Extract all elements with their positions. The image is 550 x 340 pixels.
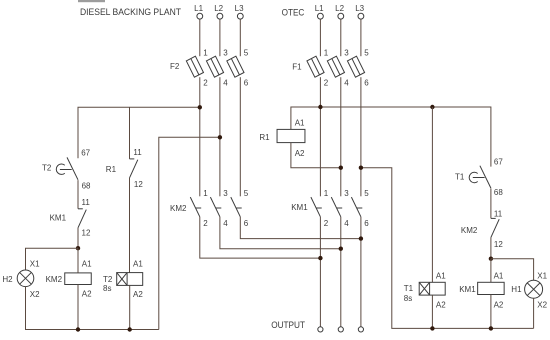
fuse F1 pole 3	[347, 56, 364, 77]
timer coil T1 pin A2	[436, 301, 446, 310]
fuse F2 pin 5	[244, 48, 249, 57]
svg-text:5: 5	[244, 189, 249, 198]
relay contact R1	[130, 159, 138, 178]
svg-text:KM1: KM1	[459, 285, 476, 294]
timer coil T2 8s	[117, 273, 143, 286]
contactor KM2 label	[170, 204, 187, 213]
wire KM2 aux to node	[490, 237, 492, 258]
wire R1 contact to T2 coil	[129, 178, 131, 273]
lamp H2	[17, 270, 34, 287]
svg-text:KM1: KM1	[291, 203, 308, 212]
coil KM1 pin A2	[494, 301, 504, 310]
coil KM1 pin A1	[494, 271, 504, 280]
timer coil T1 8s	[419, 282, 445, 295]
wire L1 diesel to fuse F2	[199, 19, 201, 56]
svg-text:KM1: KM1	[50, 213, 67, 222]
svg-text:5: 5	[364, 48, 369, 57]
wire KM2 coil to bottom rail	[77, 285, 79, 330]
coil KM2 pin A2	[82, 289, 92, 298]
contactor KM1 pole 1	[311, 197, 322, 217]
aux contact KM1 label	[50, 213, 67, 222]
svg-text:A2: A2	[133, 290, 143, 299]
svg-text:A1: A1	[494, 271, 504, 280]
svg-text:6: 6	[364, 219, 369, 228]
terminal L1 otec	[318, 13, 324, 19]
relay coil R1 pin A1	[295, 119, 305, 128]
relay contact R1 pin 11	[133, 148, 142, 157]
node junction T1 coil bottom	[430, 326, 434, 330]
terminal L3 otec	[358, 13, 364, 19]
wire left return riser and L2 tap	[159, 137, 220, 329]
timer coil T1 label	[404, 284, 414, 293]
wire lamp H2 to bottom rail	[26, 287, 159, 330]
terminal output L3	[358, 327, 363, 332]
svg-text:4: 4	[344, 219, 349, 228]
wire F2 pole 3 down to KM2 contact	[239, 77, 241, 196]
wire R1 coil to L2 otec	[291, 143, 341, 168]
lamp H1 pin X1	[537, 271, 547, 280]
relay coil R1 pin A2	[295, 149, 305, 158]
coil KM1 label	[459, 285, 476, 294]
timer coil T2 pin A2	[133, 290, 143, 299]
svg-text:2: 2	[324, 219, 329, 228]
wire node to KM1 coil	[490, 259, 492, 283]
timer contact T1 pin 68	[494, 188, 503, 197]
relay coil R1	[277, 129, 305, 142]
svg-text:A1: A1	[133, 260, 143, 269]
timer contact T1 pin 67	[494, 158, 503, 167]
contactor KM1 pole pin 5	[364, 189, 369, 198]
svg-text:L1: L1	[315, 4, 324, 13]
terminal L3 diesel label	[235, 4, 244, 13]
contactor KM1 pole pin 1	[324, 189, 329, 198]
svg-text:R1: R1	[259, 133, 270, 142]
svg-text:11: 11	[82, 198, 91, 207]
wire L1 otec to fuse F1	[319, 19, 321, 56]
terminal L2 diesel label	[214, 4, 223, 13]
svg-text:OTEC: OTEC	[282, 8, 305, 18]
svg-text:68: 68	[494, 188, 503, 197]
svg-text:1: 1	[203, 48, 208, 57]
node junction KM1 coil branch	[489, 257, 493, 261]
fuse F1 pole 1	[307, 56, 324, 77]
contactor KM2 pole 3	[231, 197, 242, 217]
svg-text:A1: A1	[436, 271, 446, 280]
contactor KM2 pole pin 5	[244, 189, 249, 198]
relay coil R1 label	[259, 133, 270, 142]
contactor KM2 pole pin 1	[203, 189, 208, 198]
svg-text:67: 67	[494, 158, 503, 167]
timer coil T2 pin A1	[133, 260, 143, 269]
wire L3 otec to right return rail	[361, 168, 534, 329]
coil KM2 pin A1	[82, 259, 92, 268]
wire L2 diesel to fuse F2	[219, 19, 221, 56]
svg-text:5: 5	[364, 189, 369, 198]
contactor KM2 pole pin 4	[223, 219, 228, 228]
timer contact T2 pin 67	[81, 149, 90, 158]
contactor KM2 pole pin 6	[244, 219, 249, 228]
wire otec control line	[291, 107, 491, 167]
svg-text:6: 6	[364, 79, 369, 88]
svg-text:KM2: KM2	[461, 226, 478, 235]
svg-text:A2: A2	[494, 301, 504, 310]
fuse F1 pin 4	[344, 79, 349, 88]
terminal L2 otec label	[335, 4, 344, 13]
svg-text:5: 5	[244, 48, 249, 57]
svg-text:68: 68	[82, 182, 91, 191]
svg-text:1: 1	[324, 48, 329, 57]
wire T1 coil to bottom rail	[431, 295, 433, 328]
svg-text:T2: T2	[103, 275, 113, 284]
wire node to lamp H1	[491, 259, 534, 281]
wire T2 coil to bottom rail	[129, 285, 131, 329]
wire F1 pole 1 down to KM1 contact	[319, 77, 321, 196]
contactor KM1 pole pin 6	[364, 219, 369, 228]
terminal L3 diesel	[237, 13, 243, 19]
node junction L2 otec	[339, 166, 343, 170]
wire F2 pole 2 down to KM2 contact	[219, 77, 221, 196]
wire F1 pole 3 down to KM1 contact	[360, 77, 362, 196]
node junction T1 coil branch	[430, 105, 434, 109]
fuse F2 pole 1	[186, 56, 203, 77]
wire control tap from L1 diesel	[78, 107, 200, 158]
svg-text:OUTPUT: OUTPUT	[271, 320, 305, 330]
timer contact T2 pin 68	[82, 182, 91, 191]
svg-text:H1: H1	[511, 285, 522, 294]
wire KM1 pole3 to output L3	[360, 217, 362, 327]
svg-text:1: 1	[203, 189, 208, 198]
terminal L1 diesel label	[194, 4, 203, 13]
relay contact R1 label	[106, 165, 117, 174]
title OUTPUT	[271, 320, 305, 330]
terminal L1 diesel	[197, 13, 203, 19]
svg-text:L2: L2	[335, 4, 344, 13]
coil KM2	[65, 273, 92, 285]
svg-text:L2: L2	[214, 4, 223, 13]
wire KM2 pole3 to output bus	[240, 217, 361, 239]
contactor KM1 pole pin 4	[344, 219, 349, 228]
fuse F1 pin 5	[364, 48, 369, 57]
contactor KM1 pole 3	[351, 197, 362, 217]
wire F1 pole 2 down to KM1 contact	[340, 77, 342, 196]
fuse F1 pin 1	[324, 48, 329, 57]
svg-text:A1: A1	[82, 259, 92, 268]
svg-text:DIESEL BACKING PLANT: DIESEL BACKING PLANT	[80, 7, 181, 17]
lamp H2 label	[2, 275, 13, 284]
terminal output L2	[338, 327, 343, 332]
svg-text:3: 3	[344, 189, 349, 198]
svg-text:4: 4	[223, 219, 228, 228]
contactor KM1 pole pin 2	[324, 219, 329, 228]
lamp H1 label	[511, 285, 522, 294]
fuse F1 pin 6	[364, 79, 369, 88]
node junction KM2 coil branch	[76, 246, 80, 250]
coil KM1	[478, 282, 505, 294]
fuse F2 pin 1	[203, 48, 208, 57]
svg-text:A2: A2	[82, 289, 92, 298]
title DIESEL BACKING PLANT	[80, 7, 181, 17]
wire T1 to KM2 aux contact	[490, 188, 492, 218]
node junction output L1	[318, 256, 322, 260]
wire KM2 pole2 to output bus	[220, 217, 341, 249]
svg-text:12: 12	[494, 240, 503, 249]
svg-text:8s: 8s	[404, 294, 412, 303]
svg-text:6: 6	[244, 219, 249, 228]
fuse F2 pole 2	[206, 56, 223, 77]
node junction L3 otec	[359, 166, 363, 170]
svg-text:T1: T1	[404, 284, 414, 293]
wire KM1 aux to node	[77, 228, 79, 248]
svg-text:A1: A1	[295, 119, 305, 128]
aux contact KM2	[491, 218, 499, 237]
fuse F2 pin 6	[244, 79, 249, 88]
fuse F2 pin 4	[223, 79, 228, 88]
fuse F2 pin 2	[203, 79, 208, 88]
title OTEC	[282, 8, 305, 18]
svg-text:2: 2	[324, 79, 329, 88]
wire lamp H1 to bottom rail	[533, 298, 535, 328]
wire node to KM2 coil	[77, 248, 79, 273]
wire KM2 pole1 to output bus	[200, 217, 321, 258]
svg-text:F1: F1	[292, 63, 302, 72]
timer coil T2 label	[103, 275, 113, 284]
fuse F2 pole 3	[227, 56, 244, 77]
lamp H2 pin X1	[30, 259, 40, 268]
timer contact T2	[56, 157, 78, 179]
svg-text:X1: X1	[537, 271, 547, 280]
svg-text:1: 1	[324, 189, 329, 198]
wire T2 to KM1 aux contact	[77, 180, 79, 209]
node junction output L3	[359, 236, 363, 240]
svg-text:3: 3	[223, 48, 228, 57]
svg-text:11: 11	[133, 148, 142, 157]
svg-text:2: 2	[203, 219, 208, 228]
lamp H1	[525, 280, 543, 298]
contactor KM2 pole pin 2	[203, 219, 208, 228]
terminal L2 diesel	[217, 13, 223, 19]
svg-text:6: 6	[244, 79, 249, 88]
timer contact T1 label	[455, 173, 465, 182]
wire KM1 coil to bottom rail	[490, 295, 492, 329]
timer contact T1	[469, 166, 491, 188]
fuse F1 label	[292, 63, 302, 72]
svg-text:4: 4	[344, 79, 349, 88]
aux contact KM2 pin 12	[494, 240, 503, 249]
terminal L3 otec label	[355, 4, 364, 13]
svg-text:3: 3	[223, 189, 228, 198]
svg-text:R1: R1	[106, 165, 117, 174]
contactor KM1 label	[291, 203, 308, 212]
contactor KM1 pole pin 3	[344, 189, 349, 198]
svg-text:KM2: KM2	[170, 204, 187, 213]
lamp H2 pin X2	[30, 290, 40, 299]
svg-text:T2: T2	[42, 163, 52, 172]
node junction L1 diesel	[198, 105, 202, 109]
svg-text:8s: 8s	[103, 284, 111, 293]
svg-text:A2: A2	[295, 149, 305, 158]
contactor KM2 pole 2	[210, 197, 221, 217]
aux contact KM2 pin 11	[494, 210, 503, 219]
timer coil T1 delay label	[404, 294, 412, 303]
wire L3 otec to fuse F1	[360, 19, 362, 56]
svg-text:L3: L3	[235, 4, 244, 13]
top edge smudge	[78, 0, 105, 2]
node junction L2 diesel	[218, 135, 222, 139]
svg-text:L1: L1	[194, 4, 203, 13]
node junction T2 coil bottom	[128, 327, 132, 331]
timer coil T1 pin A1	[436, 271, 446, 280]
node junction KM2 coil bottom	[76, 327, 80, 331]
contactor KM2 pole pin 3	[223, 189, 228, 198]
wire R1 contact branch	[129, 107, 131, 159]
fuse F1 pin 2	[324, 79, 329, 88]
svg-text:L3: L3	[355, 4, 364, 13]
svg-text:3: 3	[344, 48, 349, 57]
coil KM2 label	[46, 275, 63, 284]
aux contact KM1 pin 12	[82, 229, 91, 238]
wire T1 coil branch	[431, 107, 433, 282]
wire L3 diesel to fuse F2	[239, 19, 241, 56]
svg-text:A2: A2	[436, 301, 446, 310]
wire node to lamp H2	[26, 248, 79, 270]
svg-text:KM2: KM2	[46, 275, 63, 284]
svg-text:11: 11	[494, 210, 503, 219]
wire L2 otec to fuse F1	[340, 19, 342, 56]
relay contact R1 pin 12	[134, 180, 143, 189]
wire KM1 pole2 to output L2	[340, 217, 342, 327]
timer contact T2 label	[42, 163, 52, 172]
contactor KM2 pole 1	[190, 197, 201, 217]
svg-text:X1: X1	[30, 259, 40, 268]
svg-text:4: 4	[223, 79, 228, 88]
aux contact KM1	[78, 209, 86, 228]
lamp H1 pin X2	[537, 301, 547, 310]
svg-text:F2: F2	[170, 62, 180, 71]
fuse F2 label	[170, 62, 180, 71]
node junction L1 otec	[318, 105, 322, 109]
fuse F1 pin 3	[344, 48, 349, 57]
fuse F2 pin 3	[223, 48, 228, 57]
wire KM1 pole1 to output L1	[319, 217, 321, 327]
terminal output L1	[318, 327, 323, 332]
terminal L1 otec label	[315, 4, 324, 13]
svg-text:12: 12	[82, 229, 91, 238]
wire F2 pole 1 down to KM2 contact	[199, 77, 201, 196]
aux contact KM2 label	[461, 226, 478, 235]
node junction output L2	[339, 247, 343, 251]
svg-text:X2: X2	[537, 301, 547, 310]
svg-text:67: 67	[81, 149, 90, 158]
contactor KM1 pole 2	[331, 197, 342, 217]
svg-text:X2: X2	[30, 290, 40, 299]
node junction KM1 coil bottom	[489, 326, 493, 330]
fuse F1 pole 2	[327, 56, 344, 77]
terminal L2 otec	[338, 13, 344, 19]
svg-text:12: 12	[134, 180, 143, 189]
svg-text:2: 2	[203, 79, 208, 88]
svg-text:H2: H2	[2, 275, 13, 284]
svg-text:T1: T1	[455, 173, 465, 182]
timer coil T2 delay label	[103, 284, 111, 293]
aux contact KM1 pin 11	[82, 198, 91, 207]
